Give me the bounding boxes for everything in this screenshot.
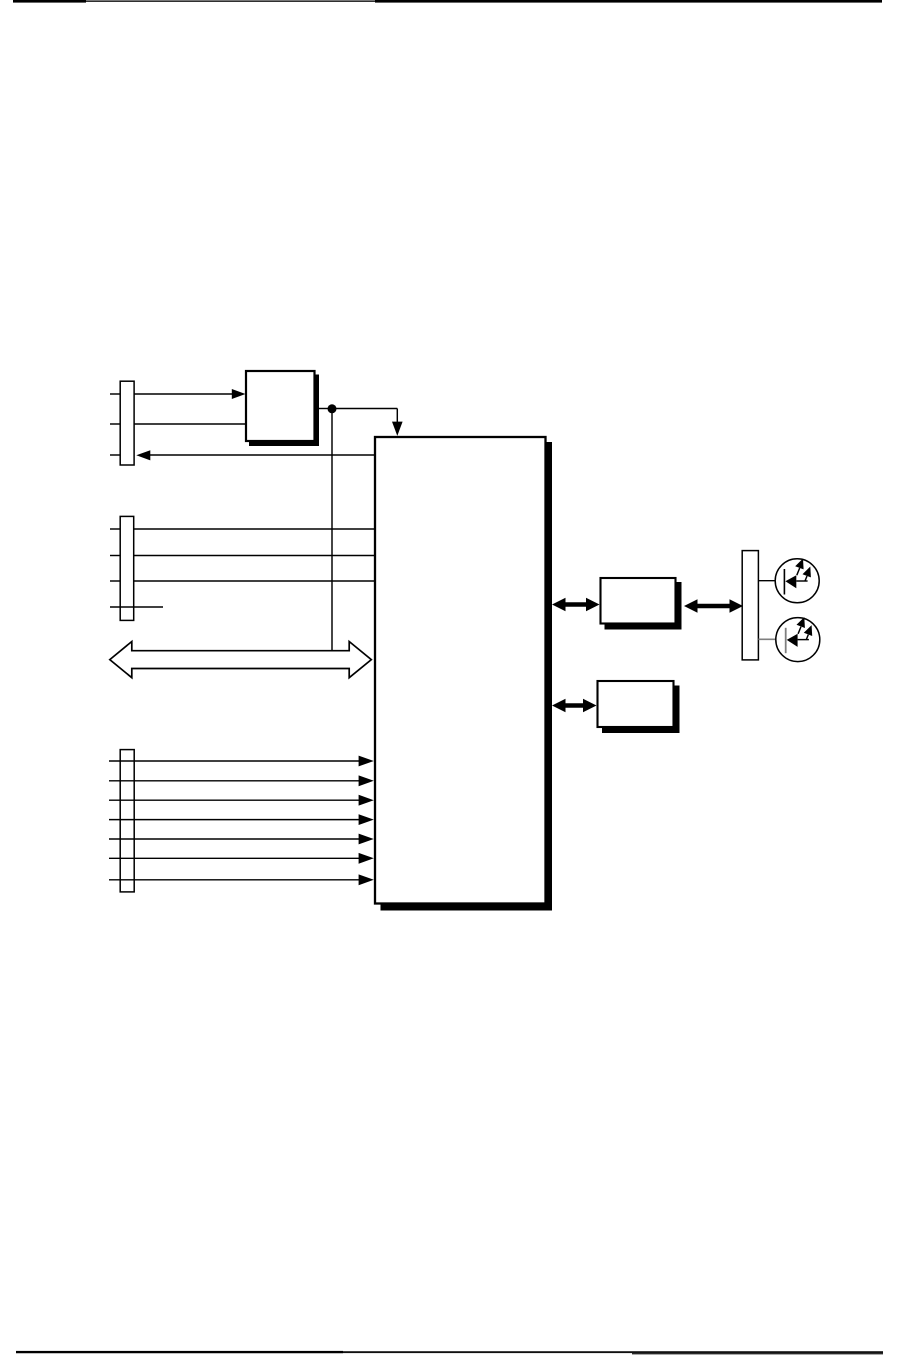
LED D2 bbox=[776, 617, 820, 662]
wire J2 to U2 line B bbox=[134, 555, 374, 557]
arrowhead line 5 bbox=[359, 834, 374, 845]
LED D1 bbox=[775, 559, 819, 603]
connector J1 (top left) bbox=[120, 381, 134, 465]
wire J3 line 7 bbox=[109, 879, 362, 881]
wire U1 output to node bbox=[316, 408, 332, 410]
wire J2 to U2 line C bbox=[134, 580, 374, 582]
header rule thick left segment bbox=[13, 0, 86, 3]
arrowhead into U1 bbox=[232, 389, 246, 399]
wire J3 line 5 bbox=[109, 838, 362, 840]
wire J2 stub line A bbox=[110, 528, 120, 530]
wire J2 stub line C bbox=[110, 580, 120, 582]
connector J2 (middle left) bbox=[120, 516, 134, 620]
wire J1 to U1 lower bbox=[134, 423, 245, 425]
bus double arrow (hollow) bbox=[110, 642, 372, 678]
double arrow U2 to U3 bbox=[552, 598, 600, 611]
connector J3 (lower left) bbox=[120, 750, 134, 892]
block U1 shadow bbox=[249, 375, 319, 447]
wire J1 to U1 (arrow right) bbox=[134, 393, 233, 395]
footer rule lower right segment bbox=[632, 1353, 883, 1355]
arrowhead into J1 bbox=[136, 450, 150, 460]
block U2 (main) bbox=[375, 437, 546, 904]
arrowhead line 3 bbox=[359, 795, 374, 806]
wire J3 line 2 bbox=[109, 780, 362, 782]
double arrow U3 to J4 bbox=[684, 599, 743, 612]
block U3 bbox=[601, 578, 676, 624]
header rule thin middle segment bbox=[86, 0, 375, 2]
wire J2 to U2 line A bbox=[134, 528, 374, 530]
wire node to top of U2 (horizontal) bbox=[332, 408, 397, 410]
wire J2 stub line B bbox=[110, 555, 120, 557]
wire J1 stub line 3 bbox=[110, 454, 120, 456]
double arrow U2 to U4 bbox=[552, 699, 597, 712]
wire J1 stub line 1 bbox=[110, 393, 120, 395]
wire J4 to LED D1 bbox=[758, 580, 784, 582]
wire J2 short stub D bbox=[110, 606, 163, 608]
connector J4 (right) bbox=[742, 551, 758, 660]
wire J3 line 4 bbox=[109, 819, 362, 821]
block U1 bbox=[246, 371, 315, 441]
wire node down to bus bbox=[331, 409, 333, 651]
wire J3 line 6 bbox=[109, 857, 362, 859]
block U4 bbox=[598, 681, 674, 727]
wire J3 line 3 bbox=[109, 799, 362, 801]
wire node down into U2 (vertical) bbox=[396, 409, 398, 424]
wire J4 to LED D2 (grey) bbox=[758, 638, 785, 640]
arrowhead line 2 bbox=[359, 775, 374, 786]
wire J1 stub line 2 bbox=[110, 423, 120, 425]
wire J3 line 1 bbox=[109, 760, 362, 762]
arrowhead line 1 bbox=[359, 756, 374, 767]
footer rule thick left segment bbox=[16, 1351, 343, 1353]
block U4 shadow bbox=[602, 686, 680, 734]
arrowhead line 4 bbox=[359, 814, 374, 825]
arrowhead line 7 bbox=[359, 874, 374, 885]
arrowhead into U2 top bbox=[392, 422, 403, 436]
node junction dot bbox=[328, 404, 337, 413]
wire U2 to J1 (leftward) bbox=[149, 454, 375, 456]
header rule right segment bbox=[375, 0, 882, 3]
block U3 shadow bbox=[605, 582, 682, 630]
footer rule bbox=[16, 1351, 883, 1353]
arrowhead line 6 bbox=[359, 853, 374, 864]
block U2 shadow bbox=[381, 442, 553, 911]
